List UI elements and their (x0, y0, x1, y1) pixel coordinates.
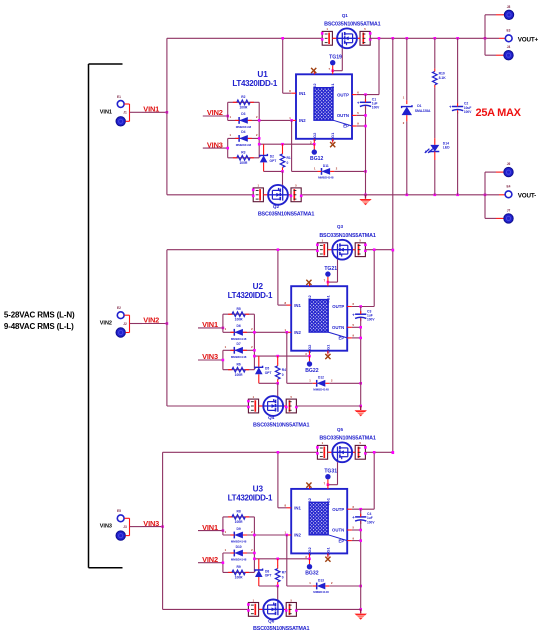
svg-text:100V: 100V (367, 520, 375, 524)
svg-text:D1: D1 (417, 104, 421, 108)
svg-text:TG2: TG2 (307, 497, 312, 506)
pin EP tie line (333, 120, 352, 126)
resistor R2 100R (227, 102, 229, 120)
svg-text:Q4: Q4 (268, 415, 275, 420)
diode D10 MMBD4148 (222, 553, 224, 572)
resistor R3 100R (228, 157, 260, 159)
svg-text:R5: R5 (236, 307, 240, 311)
node TG31 (327, 479, 329, 484)
net label VIN2 input (198, 562, 223, 564)
op-amp controller U1 LT4320IDD-1 (296, 74, 352, 139)
wire IN2 to catch diode (291, 120, 293, 171)
wire to VOUT+ rail (S2) (296, 405, 360, 407)
connector E1 VIN1 (117, 101, 124, 108)
svg-text:E1: E1 (117, 95, 121, 99)
svg-text:TG19: TG19 (329, 55, 342, 61)
op-amp controller U3 LT4320IDD-1 (291, 489, 347, 554)
LED D14 (434, 138, 436, 145)
svg-text:D10: D10 (236, 545, 242, 549)
svg-text:E5: E5 (117, 509, 121, 513)
wire gate resistor bottom (259, 382, 278, 384)
svg-text:OPT: OPT (265, 574, 272, 578)
pin stubs U2 (287, 304, 292, 306)
svg-text:OPT: OPT (270, 159, 277, 163)
svg-text:R9: R9 (236, 565, 240, 569)
svg-text:TG1: TG1 (325, 295, 330, 304)
diode D8 OPT (258, 559, 260, 570)
svg-text:VIN2: VIN2 (202, 555, 218, 564)
svg-text:100R: 100R (235, 318, 244, 322)
capacitor C3 1uF 100V (360, 307, 362, 315)
svg-text:25A MAX: 25A MAX (476, 107, 522, 119)
op-amp controller U2 LT4320IDD-1 (291, 286, 347, 351)
svg-text:E2: E2 (117, 306, 121, 310)
svg-text:IN2: IN2 (294, 533, 301, 538)
wire OUTN/EP vertical (360, 521, 362, 610)
svg-text:0: 0 (282, 576, 284, 580)
wire to VOUT+ rail (S3) (296, 608, 360, 610)
no-connect TG2 (306, 280, 311, 285)
resistor R7 0 (277, 559, 279, 566)
connector J7 (504, 214, 513, 223)
svg-text:VIN3: VIN3 (207, 140, 223, 149)
wire catch diode to OUTN node (334, 170, 365, 172)
svg-text:R1: R1 (287, 156, 291, 160)
svg-text:100R: 100R (235, 576, 244, 580)
svg-text:Q5: Q5 (337, 427, 344, 432)
svg-text:TG2: TG2 (307, 295, 312, 304)
wire Q2 gate (282, 171, 284, 185)
svg-text:VIN3: VIN3 (202, 352, 218, 361)
wire top rail left (S2) (167, 249, 318, 251)
svg-text:TG31: TG31 (324, 469, 337, 475)
svg-text:100R: 100R (235, 373, 244, 377)
svg-text:MMBD4148: MMBD4148 (231, 355, 247, 359)
svg-text:D4: D4 (241, 130, 245, 134)
diode D2 OPT (263, 144, 265, 155)
svg-text:BG12: BG12 (310, 156, 323, 162)
wire VOUT+ rail (370, 37, 499, 39)
wire VOUT+ connector tree (484, 15, 486, 55)
svg-text:LT4320IDD-1: LT4320IDD-1 (232, 79, 277, 88)
svg-text:OUTP: OUTP (337, 92, 349, 97)
svg-text:MMBD4148: MMBD4148 (236, 143, 252, 147)
connector J3 VIN3 (116, 531, 125, 540)
svg-text:J7: J7 (507, 208, 511, 212)
svg-text:R4: R4 (282, 368, 286, 372)
transistor Q2 BSC035N10NS5ATMA1 (253, 188, 263, 202)
svg-text:100R: 100R (235, 520, 244, 524)
svg-text:BSC035N10NS5ATMA1: BSC035N10NS5ATMA1 (253, 423, 310, 429)
svg-text:OUTP: OUTP (332, 304, 344, 309)
wire bottom rail left (S3) (163, 608, 249, 610)
svg-text:R8: R8 (236, 510, 240, 514)
wire VOUT- rail (302, 194, 499, 196)
no-connect BG1 (330, 142, 335, 147)
resistor R5 100R (222, 314, 224, 332)
capacitor C4 1uF 100V (360, 509, 362, 517)
diode D4 MMBD4148 (227, 138, 229, 157)
wire catch diode to OUTN node (329, 382, 360, 384)
svg-text:IN2: IN2 (294, 330, 301, 335)
diode D12 MMBD4148 (317, 380, 326, 387)
wire OUTN/EP vertical (365, 106, 367, 195)
svg-text:D6: D6 (236, 324, 240, 328)
pin EP tie line (328, 535, 347, 541)
node BG32 (309, 559, 311, 564)
connector E5 VIN3 (117, 515, 124, 522)
svg-text:R10: R10 (439, 72, 445, 76)
svg-text:TG21: TG21 (324, 266, 337, 272)
transistor Q5 BSC035N10NS5ATMA1 (317, 445, 327, 459)
svg-text:D9: D9 (236, 527, 240, 531)
svg-text:VIN2: VIN2 (207, 108, 223, 117)
svg-text:Q3: Q3 (337, 224, 344, 229)
node BG22 (309, 356, 311, 361)
node TG21 (327, 277, 329, 282)
svg-text:U1: U1 (257, 70, 268, 79)
transistor Q1 BSC035N10NS5ATMA1 (322, 31, 332, 45)
connector J2 VIN2 (116, 328, 125, 337)
net label VIN1 input (198, 530, 223, 532)
no-connect BG1 (325, 557, 330, 562)
svg-text:MMBD4148: MMBD4148 (313, 590, 329, 594)
svg-text:BSC035N10NS5ATMA1: BSC035N10NS5ATMA1 (324, 22, 381, 28)
svg-text:BSC035N10NS5ATMA1: BSC035N10NS5ATMA1 (253, 626, 310, 632)
pin stubs U1 (291, 92, 296, 94)
svg-text:R2: R2 (241, 95, 245, 99)
svg-text:+: + (357, 100, 360, 105)
svg-text:VIN1: VIN1 (202, 523, 218, 532)
transistor Q3 BSC035N10NS5ATMA1 (317, 243, 327, 257)
resistor R8 100R (222, 517, 224, 535)
svg-text:TG1: TG1 (325, 497, 330, 506)
svg-text:IN1: IN1 (294, 506, 301, 511)
svg-text:100V: 100V (367, 318, 375, 322)
diode D9 MMBD4148 (223, 534, 255, 536)
svg-text:MMBD4148: MMBD4148 (231, 540, 247, 544)
svg-text:J6: J6 (507, 162, 511, 166)
diode D5 OPT (258, 356, 260, 367)
wire BG2 gate drive (S3) (254, 558, 309, 560)
diode D7 MMBD4148 (222, 350, 224, 369)
svg-text:100R: 100R (239, 161, 248, 165)
svg-text:MMBD4148: MMBD4148 (231, 337, 247, 341)
svg-text:0: 0 (287, 161, 289, 165)
wire OUTN/EP vertical (360, 318, 362, 406)
svg-text:OUTN: OUTN (337, 113, 349, 118)
svg-text:MMBD4148: MMBD4148 (318, 176, 334, 180)
svg-text:D12: D12 (318, 376, 324, 380)
wire Q5 gate to TG1 (337, 462, 339, 485)
transistor Q6 BSC035N10NS5ATMA1 (248, 603, 258, 617)
svg-text:+: + (352, 515, 355, 520)
connector E3 VOUT+ (505, 35, 512, 42)
wire gate resistor bottom (264, 170, 283, 172)
svg-text:J1: J1 (123, 111, 127, 115)
svg-text:SMAJ28A: SMAJ28A (415, 109, 431, 113)
svg-text:VIN2: VIN2 (100, 321, 112, 327)
svg-text:TG1: TG1 (330, 83, 335, 92)
wire bottom rail left (S2) (167, 405, 249, 407)
wire IN1 sense (S3) (277, 452, 279, 508)
net label VIN3 input (203, 147, 228, 149)
svg-text:OPT: OPT (265, 371, 272, 375)
capacitor C1 1uF 100V (365, 95, 367, 103)
svg-text:J8: J8 (507, 5, 511, 9)
svg-text:BSC035N10NS5ATMA1: BSC035N10NS5ATMA1 (319, 233, 376, 239)
svg-text:OUTN: OUTN (332, 325, 344, 330)
diode D13 MMBD4148 (317, 583, 326, 590)
net label VIN1 input (198, 327, 223, 329)
connector J6 (504, 167, 513, 176)
no-connect TG2 (311, 68, 316, 73)
diode D1 SMAJ28A (406, 38, 408, 100)
svg-text:100R: 100R (239, 106, 248, 110)
resistor R1 0 (282, 144, 284, 151)
wire IN2 to catch diode (286, 332, 288, 383)
net label VIN2 input (203, 115, 228, 117)
svg-text:BSC035N10NS5ATMA1: BSC035N10NS5ATMA1 (319, 436, 376, 442)
wire Q1 gate to TG1 (341, 48, 343, 70)
svg-text:OUTN: OUTN (332, 528, 344, 533)
wire top rail left (S1) (167, 37, 322, 39)
svg-text:+: + (352, 312, 355, 317)
wire OUTP node (352, 306, 374, 308)
connector J8 (504, 10, 513, 19)
svg-text:8.1K: 8.1K (439, 76, 447, 80)
svg-text:U3: U3 (253, 485, 264, 494)
svg-text:0: 0 (282, 373, 284, 377)
wire Q4 gate (277, 383, 279, 396)
svg-text:LT4320IDD-1: LT4320IDD-1 (228, 291, 273, 300)
svg-text:R7: R7 (282, 571, 286, 575)
ground (360, 609, 362, 613)
svg-text:VIN1: VIN1 (100, 109, 112, 115)
svg-text:E3: E3 (507, 28, 511, 32)
svg-text:IN2: IN2 (299, 118, 306, 123)
wire network output to IN2 (253, 314, 255, 370)
svg-text:LT4320IDD-1: LT4320IDD-1 (228, 494, 273, 503)
resistor R9 100R (223, 571, 255, 573)
svg-text:9-48VAC RMS (L-L): 9-48VAC RMS (L-L) (4, 322, 74, 331)
connector E4 VOUT- (505, 191, 512, 198)
wire OUTP node (357, 94, 379, 96)
svg-text:J2: J2 (123, 322, 127, 326)
ground (360, 406, 362, 410)
wire gate resistor bottom (259, 585, 278, 587)
svg-text:J4: J4 (507, 45, 511, 49)
svg-text:J3: J3 (123, 525, 127, 529)
resistor R4 0 (277, 356, 279, 363)
svg-text:BSC035N10NS5ATMA1: BSC035N10NS5ATMA1 (258, 211, 315, 217)
wire BG2 gate drive (S2) (254, 355, 309, 357)
svg-text:BG22: BG22 (305, 368, 318, 374)
connector J4 (504, 51, 513, 60)
svg-text:D13: D13 (318, 578, 324, 582)
wire OUTP node (352, 508, 374, 510)
transistor Q4 BSC035N10NS5ATMA1 (248, 399, 258, 413)
pin stubs U3 (287, 507, 292, 509)
connector J1 VIN1 (116, 117, 125, 126)
no-connect BG1 (325, 354, 330, 359)
bracket (88, 64, 90, 568)
svg-text:VIN3: VIN3 (100, 524, 112, 530)
svg-text:VOUT-: VOUT- (518, 192, 536, 199)
svg-text:MMBD4148: MMBD4148 (313, 388, 329, 392)
svg-text:+: + (449, 105, 452, 110)
svg-text:VIN1: VIN1 (202, 320, 218, 329)
wire VIN2 feed (124, 314, 129, 316)
svg-text:OUTP: OUTP (332, 507, 344, 512)
svg-text:BG32: BG32 (305, 571, 318, 577)
svg-text:5-28VAC RMS (L-N): 5-28VAC RMS (L-N) (4, 311, 75, 320)
wire left vertical VIN rail (S3) (162, 452, 164, 609)
resistor R10 8.1K (434, 38, 436, 68)
wire VOUT+ feed vertical (392, 38, 394, 452)
wire BG2 gate drive (S1) (259, 143, 314, 145)
svg-text:R3: R3 (241, 151, 245, 155)
wire VIN3 feed (124, 517, 129, 519)
svg-text:R6: R6 (236, 363, 240, 367)
no-connect TG2 (306, 483, 311, 488)
svg-text:D7: D7 (236, 342, 240, 346)
svg-text:D3: D3 (241, 112, 245, 116)
ground (365, 195, 367, 199)
svg-text:LED: LED (443, 146, 450, 150)
wire VIN1 feed (124, 103, 129, 105)
resistor R6 100R (223, 369, 255, 371)
svg-text:TG2: TG2 (312, 83, 317, 92)
svg-text:E4: E4 (507, 184, 511, 188)
diode D6 MMBD4148 (223, 331, 255, 333)
net label VIN3 input (198, 359, 223, 361)
wire left vertical VIN rail (S2) (166, 250, 168, 406)
wire catch diode to OUTN node (329, 585, 360, 587)
svg-text:IN1: IN1 (294, 303, 301, 308)
diode D11 MMBD4148 (322, 168, 331, 175)
wire IN2 to catch diode (286, 535, 288, 586)
svg-text:MMBD4148: MMBD4148 (231, 558, 247, 562)
pin EP tie line (328, 332, 347, 338)
wire top rail left (S3) (163, 451, 318, 453)
svg-text:100V: 100V (372, 106, 380, 110)
wire network output to IN2 (258, 102, 260, 158)
svg-text:Q2: Q2 (273, 204, 280, 209)
wire bottom rail left (S1) (167, 194, 253, 196)
wire VOUT- connector tree (484, 172, 486, 218)
wire Q3 gate to TG1 (337, 260, 339, 283)
svg-text:Q1: Q1 (342, 13, 349, 18)
svg-text:U2: U2 (253, 282, 264, 291)
diode D3 MMBD4148 (228, 119, 260, 121)
node TG19 (332, 65, 334, 70)
svg-text:VOUT+: VOUT+ (518, 36, 539, 43)
capacitor C2 10uF 100V (457, 38, 459, 103)
node BG12 (313, 144, 315, 149)
wire left vertical VIN rail (S1) (166, 38, 168, 195)
svg-text:D11: D11 (323, 164, 329, 168)
wire Q6 gate (277, 586, 279, 600)
svg-text:IN1: IN1 (299, 91, 306, 96)
wire IN1 sense (S1) (282, 38, 284, 93)
svg-text:Q6: Q6 (268, 618, 275, 623)
wire network output to IN2 (253, 517, 255, 573)
svg-text:MMBD4148: MMBD4148 (236, 125, 252, 129)
connector E2 VIN2 (117, 312, 124, 319)
svg-text:100V: 100V (464, 110, 472, 114)
wire IN1 sense (S2) (277, 250, 279, 305)
